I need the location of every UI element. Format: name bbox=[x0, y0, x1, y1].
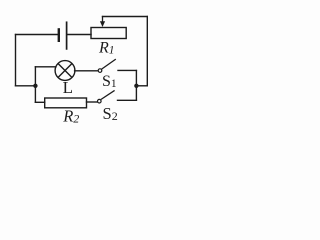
wire S2 branch up to node B bbox=[135, 86, 137, 101]
wire lamp branch vertical from node A bbox=[34, 67, 36, 86]
wire node-A left horizontal bbox=[16, 85, 36, 87]
wire R2 to S2 bbox=[87, 101, 98, 103]
node A junction dot bbox=[33, 84, 37, 88]
lamp L symbol: circle with cross bbox=[55, 61, 75, 81]
battery BT1 short plate (negative) bbox=[58, 29, 60, 40]
wire lamp to S1 bbox=[75, 70, 99, 72]
battery BT1 long plate (positive) bbox=[66, 22, 68, 49]
node B junction dot bbox=[134, 84, 138, 88]
wire left vertical bbox=[15, 35, 17, 86]
switch S1 pivot circle bbox=[98, 69, 102, 73]
wire R2 branch vertical from node A bbox=[34, 86, 36, 103]
arrowhead of rheostat R1 wiper bbox=[100, 21, 105, 27]
svg-text:L: L bbox=[63, 78, 73, 97]
resistor R2 body bbox=[45, 98, 87, 108]
switch S2 blade bbox=[101, 90, 115, 99]
wire S1 branch down to node B bbox=[135, 71, 137, 86]
wire right vertical bbox=[146, 17, 148, 86]
wire S2 fixed contact to corner bbox=[118, 99, 137, 101]
wire battery to R1 bbox=[68, 34, 92, 36]
wire node-B right horizontal bbox=[136, 85, 147, 87]
wire lamp left bbox=[35, 66, 56, 68]
wire node A to R2 bbox=[35, 101, 44, 103]
switch S2 pivot circle bbox=[98, 99, 102, 103]
wire top-left horizontal bbox=[16, 34, 58, 36]
resistor R1 body (rheostat) bbox=[91, 28, 126, 39]
wire R1 wiper stem bbox=[102, 17, 104, 22]
switch S1 blade bbox=[102, 59, 116, 69]
wire top horizontal (wiper to right side) bbox=[103, 16, 148, 18]
wire S1 fixed contact to corner bbox=[118, 69, 136, 71]
